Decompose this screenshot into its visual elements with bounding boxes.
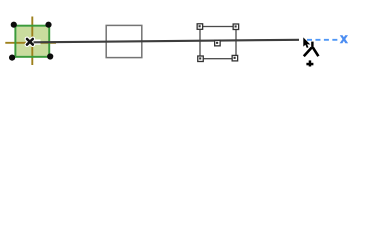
source endpoint marker X	[27, 39, 33, 45]
mouse cursor: fork right leg	[313, 48, 319, 57]
node A: source shape border (green)	[15, 26, 49, 57]
selection dot top-right	[45, 22, 51, 28]
connection handle bottom-right of node C	[232, 55, 238, 61]
connection handle top-right of node C	[233, 24, 239, 30]
node B: middle square	[106, 25, 142, 57]
selection dot top-left	[11, 22, 17, 28]
wire: edge line from source to cursor	[34, 40, 300, 43]
connection handle center of node C	[215, 40, 221, 46]
mouse cursor: fork left leg	[304, 48, 312, 57]
connection handle bottom-left of node C	[198, 56, 204, 62]
crosshair horizontal (olive)	[5, 42, 56, 44]
mouse cursor: plus badge	[306, 63, 313, 66]
mouse cursor: pointer arrow	[303, 37, 310, 48]
mouse cursor: fork stem	[311, 42, 313, 48]
wire: blue dashed preview line	[307, 39, 338, 41]
selection dot bottom-right	[47, 53, 53, 59]
selection dot bottom-left	[9, 55, 15, 61]
node C: target square outline	[200, 27, 236, 59]
crosshair vertical (olive)	[31, 17, 33, 66]
white halo behind source endpoint marker	[27, 39, 33, 45]
connection handle top-left of node C	[197, 24, 203, 30]
svg-text:x: x	[340, 31, 348, 46]
node A: source shape (green highlighted square) fill	[16, 27, 48, 56]
